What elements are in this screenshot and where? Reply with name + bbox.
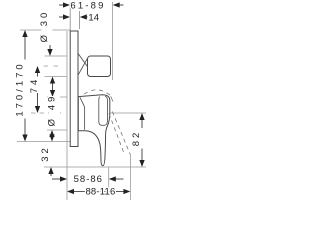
center dashes handle axis y113	[31, 112, 63, 114]
knockout 74	[33, 77, 43, 94]
dashed lever alt position line B	[112, 112, 130, 155]
escutcheon plate	[70, 31, 78, 147]
extension line x130.4 for 88-116	[129, 154, 131, 200]
svg-text:14: 14	[88, 13, 99, 24]
dim 88-116 bottom row2	[67, 189, 130, 194]
knockout Ø30	[42, 11, 53, 45]
extension line y30 plate top	[20, 29, 70, 31]
dim 82 right	[139, 113, 144, 167]
extension line y130 sleeve bottom	[47, 129, 67, 131]
dashed corner segment	[111, 96, 113, 101]
svg-text:32: 32	[40, 145, 51, 162]
dim 170/170 left	[22, 30, 27, 142]
extension line plate-left top	[69, 2, 71, 31]
dim Ø30 arrows	[47, 45, 55, 97]
dashed lever alt position line A	[109, 114, 124, 153]
svg-text:170/170: 170/170	[15, 61, 26, 116]
svg-text:88-116: 88-116	[85, 187, 115, 198]
dim Ø49 arrows	[49, 130, 54, 142]
extension line y141.5	[17, 141, 70, 143]
svg-text:Ø 49: Ø 49	[47, 94, 58, 127]
wall line	[66, 31, 68, 200]
extension line y113 right (handle axis)	[110, 112, 147, 114]
extension line y97 sleeve top	[47, 96, 67, 98]
knockout Ø49	[49, 96, 60, 124]
extension line y76.5 knob bottom	[45, 76, 68, 78]
dim 74	[35, 66, 40, 113]
dim 14 second row	[59, 14, 88, 19]
svg-text:74: 74	[29, 77, 40, 94]
extension line x79.5 for 14	[79, 11, 81, 29]
extension line x112.5 for 61-89	[112, 2, 114, 80]
knockout 170/170	[18, 60, 27, 119]
svg-text:61-89: 61-89	[70, 1, 105, 12]
svg-text:Ø 30: Ø 30	[39, 10, 50, 43]
dim 58-86 bottom row1	[52, 176, 124, 181]
lever grip contour	[99, 96, 108, 125]
svg-text:58-86: 58-86	[74, 174, 103, 185]
lever handle silhouette	[78, 95, 110, 166]
dashed swing arc	[84, 90, 111, 96]
dim 32 bottom arrow	[48, 167, 53, 176]
dim 61-89 top row	[59, 2, 124, 7]
knob neck taper	[78, 54, 87, 75]
svg-text:82: 82	[131, 130, 142, 147]
extension line y167 lever bottom	[44, 166, 146, 168]
knob body	[88, 56, 111, 77]
knockout 82	[134, 128, 144, 149]
lever neck diagonal	[80, 97, 85, 130]
center dashes knob axis y66	[44, 65, 59, 67]
extension line y56 knob top	[45, 55, 68, 57]
extension line x108.7 for 58-86	[108, 167, 110, 189]
